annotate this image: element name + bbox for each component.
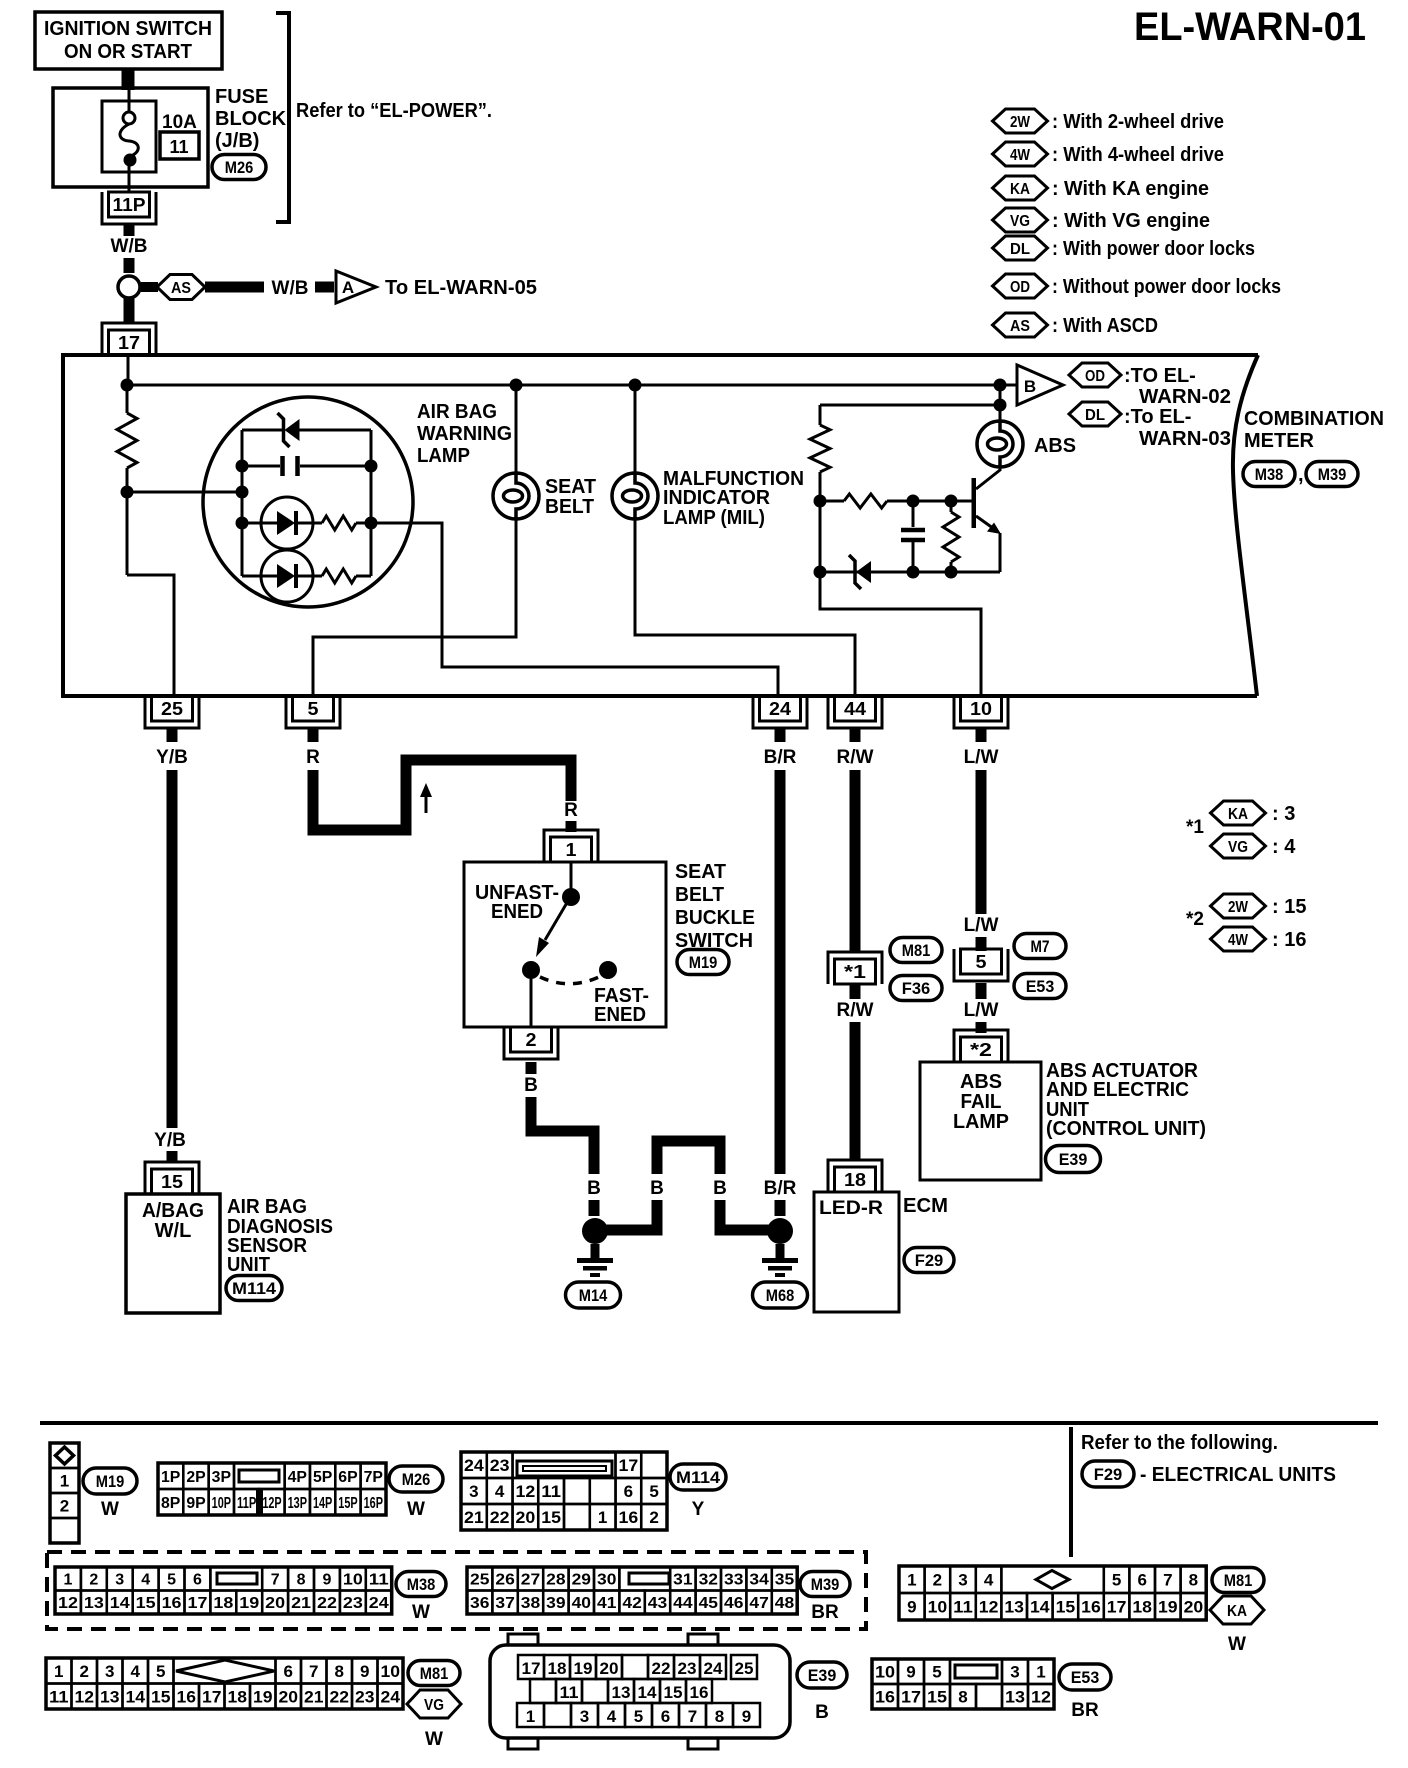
svg-text::TO EL-: :TO EL- (1124, 365, 1196, 387)
svg-text:2P: 2P (186, 1469, 206, 1486)
svg-text:21: 21 (291, 1595, 311, 1612)
svg-text:5: 5 (634, 1707, 643, 1726)
svg-text:LAMP: LAMP (953, 1111, 1009, 1133)
LED 1 with resistor (242, 522, 261, 525)
air bag warning lamp circle (203, 397, 413, 607)
svg-text:18: 18 (213, 1595, 233, 1612)
LED 2 with resistor (242, 575, 261, 578)
bridge wire between grounds (657, 1141, 720, 1174)
svg-text:9: 9 (322, 1572, 331, 1589)
wire node to connector 17 (124, 298, 135, 322)
svg-text:5: 5 (1112, 1571, 1121, 1590)
svg-text:(CONTROL UNIT): (CONTROL UNIT) (1046, 1118, 1206, 1140)
svg-text:17: 17 (522, 1659, 541, 1678)
svg-text:7: 7 (688, 1707, 697, 1726)
svg-text:5: 5 (649, 1482, 658, 1501)
svg-text:AIR BAG: AIR BAG (227, 1196, 307, 1218)
svg-text:M39: M39 (1318, 465, 1347, 484)
svg-text:ENED: ENED (594, 1004, 646, 1026)
svg-text:W/B: W/B (272, 278, 309, 299)
malfunction indicator lamp (612, 473, 658, 519)
connector *2 (954, 1030, 1008, 1062)
svg-text:12P: 12P (262, 1495, 282, 1512)
switch labels (475, 882, 559, 923)
connector M39 pin layout (467, 1567, 797, 1614)
svg-text:3P: 3P (212, 1469, 232, 1486)
svg-text:37: 37 (495, 1595, 515, 1612)
svg-text:SEAT: SEAT (675, 861, 726, 883)
svg-text:23: 23 (355, 1687, 375, 1706)
svg-text:7: 7 (271, 1572, 280, 1589)
ground junction dot M68 (767, 1218, 793, 1244)
wire R/W to ECM (850, 770, 861, 952)
zener diode top (278, 413, 300, 447)
svg-text:E39: E39 (808, 1666, 837, 1685)
svg-text:32: 32 (699, 1572, 719, 1589)
svg-text:ON OR START: ON OR START (64, 41, 192, 63)
svg-text:3: 3 (105, 1662, 114, 1681)
ABS lamp (977, 421, 1023, 467)
svg-text:3: 3 (958, 1571, 967, 1590)
wire stub to arrow (315, 282, 334, 293)
svg-text:13P: 13P (288, 1495, 308, 1512)
svg-text:M38: M38 (1255, 465, 1284, 484)
svg-text:46: 46 (724, 1595, 744, 1612)
svg-text:20: 20 (279, 1687, 299, 1706)
svg-text:5: 5 (156, 1662, 165, 1681)
ignition switch box (35, 12, 222, 69)
svg-text:3: 3 (469, 1482, 478, 1501)
svg-text:5: 5 (976, 952, 987, 972)
wire B buckle to ground M14 (531, 1097, 594, 1174)
svg-text:14: 14 (1030, 1598, 1050, 1617)
svg-text:11: 11 (953, 1598, 973, 1617)
svg-text:10P: 10P (212, 1495, 232, 1512)
svg-text::To EL-: :To EL- (1124, 406, 1191, 428)
svg-text:M114: M114 (676, 1468, 721, 1487)
svg-text:4: 4 (495, 1482, 505, 1501)
bottom rail of ABS circuit (820, 571, 1000, 574)
svg-text:31: 31 (673, 1572, 693, 1589)
svg-text:BUCKLE: BUCKLE (675, 907, 755, 929)
svg-text:,: , (1298, 464, 1304, 486)
svg-text:18: 18 (1132, 1598, 1152, 1617)
svg-text:1: 1 (63, 1572, 72, 1589)
svg-text:16: 16 (619, 1508, 639, 1527)
wire stub below 11P (124, 224, 135, 236)
svg-text:16P: 16P (364, 1495, 384, 1512)
svg-text:5: 5 (308, 699, 319, 719)
svg-text:13: 13 (84, 1595, 104, 1612)
svg-text:15: 15 (1056, 1598, 1076, 1617)
svg-text:: Without power door locks: : Without power door locks (1052, 276, 1281, 298)
svg-text:18: 18 (228, 1687, 248, 1706)
svg-text:1: 1 (526, 1707, 535, 1726)
switch contact from pin 1 (570, 862, 573, 893)
ground junction dot M14 (582, 1218, 608, 1244)
svg-text:21: 21 (304, 1687, 324, 1706)
ground symbol M68 (762, 1244, 798, 1277)
svg-text:*1: *1 (1186, 817, 1204, 838)
wire into air bag lamp assembly (127, 491, 242, 494)
svg-text:40: 40 (572, 1595, 592, 1612)
svg-text:17: 17 (118, 333, 140, 353)
svg-text:25: 25 (470, 1572, 490, 1589)
connector M38 oval (1243, 462, 1295, 487)
svg-text:15: 15 (151, 1687, 171, 1706)
connector F29 oval bottom (1082, 1461, 1134, 1487)
air bag warning lamp label (417, 401, 512, 467)
svg-text:FAIL: FAIL (961, 1091, 1002, 1113)
svg-text:6: 6 (624, 1482, 633, 1501)
svg-text:23: 23 (678, 1659, 697, 1678)
svg-text:L/W: L/W (964, 915, 999, 936)
svg-text:5: 5 (167, 1572, 176, 1589)
svg-text:13: 13 (612, 1683, 631, 1702)
connector 1 buckle switch (544, 830, 598, 862)
arrow A to EL-WARN-05 (336, 271, 376, 303)
svg-text:7: 7 (309, 1662, 318, 1681)
separator line (40, 1421, 1378, 1425)
svg-text:1: 1 (907, 1571, 916, 1590)
svg-text:27: 27 (521, 1572, 541, 1589)
svg-text:4: 4 (984, 1571, 994, 1590)
svg-text:19: 19 (253, 1687, 273, 1706)
svg-text:COMBINATION: COMBINATION (1244, 408, 1384, 430)
ABS fail lamp box (920, 1062, 1041, 1180)
svg-text:M81: M81 (902, 941, 931, 960)
svg-text:L/W: L/W (964, 747, 999, 768)
svg-text:17: 17 (1107, 1598, 1127, 1617)
svg-text:W: W (101, 1499, 119, 1520)
svg-text:47: 47 (749, 1595, 769, 1612)
svg-text:11: 11 (369, 1572, 389, 1589)
wire MIL to connector 44 (635, 519, 855, 696)
svg-text:W: W (425, 1729, 443, 1750)
wire from 17 into meter bus (127, 355, 130, 385)
ECM LED-R box (814, 1192, 899, 1312)
svg-text:33: 33 (724, 1572, 744, 1589)
legend tag VG (993, 208, 1048, 232)
svg-text:M68: M68 (766, 1286, 795, 1305)
svg-text:5: 5 (932, 1663, 941, 1682)
wire LED row to connector 24 (371, 523, 778, 696)
svg-text:VG: VG (424, 1697, 444, 1714)
svg-text:KA: KA (1228, 806, 1248, 823)
svg-text:SEAT: SEAT (545, 476, 596, 498)
resistor meter left (126, 385, 129, 413)
svg-text:25: 25 (161, 699, 183, 719)
svg-text:To EL-WARN-05: To EL-WARN-05 (385, 277, 537, 299)
svg-text:ENED: ENED (491, 901, 543, 923)
svg-text:WARN-02: WARN-02 (1139, 386, 1231, 408)
svg-text:Y: Y (692, 1499, 705, 1520)
arrow B (1017, 365, 1063, 405)
connector F29 oval (904, 1248, 954, 1273)
svg-text:B: B (713, 1178, 727, 1199)
svg-text:A: A (342, 278, 354, 297)
svg-text:12: 12 (75, 1687, 95, 1706)
svg-text:38: 38 (521, 1595, 541, 1612)
svg-text:M7: M7 (1031, 937, 1050, 956)
svg-text:F36: F36 (902, 979, 931, 998)
connector 25 meter bottom (145, 696, 199, 728)
svg-text:22: 22 (330, 1687, 350, 1706)
svg-text:21: 21 (464, 1508, 484, 1527)
svg-text:17: 17 (619, 1456, 639, 1475)
svg-text:B: B (524, 1075, 538, 1096)
svg-text:B: B (1024, 377, 1036, 396)
svg-text:LAMP: LAMP (417, 445, 470, 467)
svg-text:Refer to the following.: Refer to the following. (1081, 1432, 1278, 1454)
svg-text:VG: VG (1228, 839, 1248, 856)
seat belt label (545, 476, 596, 518)
air bag lamp inner rectangle (242, 430, 371, 576)
connector M38 pin layout (55, 1567, 392, 1614)
svg-text:LAMP (MIL): LAMP (MIL) (663, 507, 765, 529)
svg-text:6P: 6P (338, 1469, 358, 1486)
svg-text:ECM: ECM (903, 1195, 948, 1217)
svg-text:8: 8 (958, 1688, 967, 1707)
svg-text:R: R (564, 800, 578, 821)
svg-text:M81: M81 (420, 1664, 449, 1683)
svg-text:L/W: L/W (964, 1000, 999, 1021)
seat belt lamp (493, 473, 539, 519)
svg-text:48: 48 (775, 1595, 795, 1612)
svg-text:22: 22 (652, 1659, 671, 1678)
connector ovals M81 F36 (890, 938, 942, 963)
MIL label (663, 468, 804, 529)
svg-text:M81: M81 (1224, 1571, 1253, 1590)
svg-text:15: 15 (161, 1172, 183, 1192)
wire contact to pin 2 (530, 979, 533, 1027)
svg-text:W: W (412, 1602, 430, 1623)
svg-text:3: 3 (580, 1707, 589, 1726)
svg-text:16: 16 (1081, 1598, 1101, 1617)
svg-text:19: 19 (574, 1659, 593, 1678)
connector 10 meter bottom (954, 696, 1008, 728)
arrow up marker (420, 783, 432, 813)
svg-text:9: 9 (360, 1662, 369, 1681)
svg-text:15: 15 (664, 1683, 683, 1702)
svg-text:45: 45 (699, 1595, 719, 1612)
wire seat belt lamp to connector 5 (313, 519, 516, 696)
svg-text:29: 29 (572, 1572, 592, 1589)
svg-text:18: 18 (844, 1170, 866, 1190)
svg-text:10A: 10A (162, 112, 197, 133)
svg-text:23: 23 (490, 1456, 510, 1475)
svg-text:16: 16 (875, 1688, 895, 1707)
svg-text:ABS: ABS (960, 1071, 1002, 1093)
svg-text:20: 20 (265, 1595, 285, 1612)
connector 44 meter bottom (828, 696, 882, 728)
svg-text:17: 17 (901, 1688, 921, 1707)
svg-text:EL-WARN-01: EL-WARN-01 (1134, 5, 1366, 49)
wire W/B to arrow A (205, 282, 264, 293)
zener diode bottom rail (849, 555, 871, 589)
svg-text:E53: E53 (1071, 1668, 1100, 1687)
svg-text:METER: METER (1244, 430, 1315, 452)
svg-text:8: 8 (335, 1662, 344, 1681)
base resistor (820, 500, 844, 503)
svg-text:15: 15 (927, 1688, 947, 1707)
svg-text:ABS: ABS (1034, 435, 1076, 457)
dashed box M38 M39 (47, 1552, 866, 1629)
svg-text:24: 24 (464, 1456, 484, 1475)
svg-text:R: R (306, 747, 320, 768)
svg-text:14: 14 (126, 1687, 146, 1706)
svg-text:BELT: BELT (545, 496, 594, 518)
svg-text:10: 10 (381, 1662, 401, 1681)
svg-text:10: 10 (875, 1663, 895, 1682)
combination meter box (63, 355, 1258, 696)
svg-text:15: 15 (136, 1595, 156, 1612)
wire bus to seat belt lamp (515, 385, 518, 473)
svg-text:M39: M39 (811, 1575, 840, 1594)
fuse position mark (256, 1490, 263, 1514)
wire Y/B to air bag sensor (167, 770, 178, 1128)
svg-text:4: 4 (141, 1572, 150, 1589)
air bag diagnosis sensor unit label (227, 1196, 333, 1276)
svg-text:20: 20 (600, 1659, 619, 1678)
svg-text:B/R: B/R (764, 1178, 797, 1199)
svg-text:Y/B: Y/B (154, 1130, 186, 1151)
connector M19 pin layout (50, 1443, 79, 1543)
svg-text:*2: *2 (970, 1040, 992, 1060)
svg-text:INDICATOR: INDICATOR (663, 487, 771, 509)
svg-text:BR: BR (811, 1602, 839, 1623)
transistor Q ABS (972, 470, 1002, 534)
svg-text:1: 1 (598, 1508, 607, 1527)
connector 18 (828, 1160, 882, 1192)
wire bus to MIL lamp (634, 385, 637, 473)
svg-text:- ELECTRICAL UNITS: - ELECTRICAL UNITS (1140, 1464, 1336, 1486)
switch arm with arrow (536, 901, 568, 957)
svg-text:11P: 11P (237, 1495, 257, 1512)
svg-text:WARN-03: WARN-03 (1139, 428, 1231, 450)
svg-text:41: 41 (597, 1595, 617, 1612)
svg-text:24: 24 (381, 1687, 401, 1706)
svg-text:M19: M19 (96, 1472, 125, 1491)
combination meter label (1244, 408, 1384, 452)
svg-text:13: 13 (100, 1687, 120, 1706)
connector M26 pin layout (158, 1463, 386, 1515)
connector M19 oval (677, 950, 729, 975)
connector 2 buckle switch (504, 1027, 558, 1059)
wire L/W to ABS unit (976, 770, 987, 914)
svg-text:(J/B): (J/B) (215, 130, 259, 152)
svg-text:E39: E39 (1059, 1150, 1088, 1169)
svg-text:FUSE: FUSE (215, 86, 268, 108)
connector M39 oval (1306, 462, 1358, 487)
svg-text:M14: M14 (579, 1286, 608, 1305)
svg-text:UNIT: UNIT (227, 1254, 270, 1276)
svg-text:7: 7 (1163, 1571, 1172, 1590)
svg-text:17: 17 (188, 1595, 208, 1612)
wire emitter down (999, 533, 1002, 572)
svg-text:4W: 4W (1010, 147, 1031, 164)
legend tag 4W (993, 142, 1048, 166)
svg-text:*2: *2 (1186, 909, 1204, 930)
svg-text:6: 6 (284, 1662, 293, 1681)
svg-text:10: 10 (343, 1572, 363, 1589)
svg-text:7P: 7P (364, 1469, 384, 1486)
connector M81 KA pin layout (899, 1566, 1206, 1620)
svg-text:17: 17 (202, 1687, 222, 1706)
svg-text:1P: 1P (161, 1469, 181, 1486)
svg-text:16: 16 (162, 1595, 182, 1612)
svg-text:KA: KA (1227, 1603, 1247, 1620)
svg-text:2: 2 (60, 1497, 69, 1516)
connector *1 (828, 952, 882, 984)
svg-text:16: 16 (690, 1683, 709, 1702)
svg-text:W/L: W/L (155, 1220, 192, 1242)
svg-text:R/W: R/W (837, 1000, 874, 1021)
svg-text:13: 13 (1004, 1598, 1024, 1617)
connector 11P (102, 192, 156, 224)
connector 5 meter bottom (286, 696, 340, 728)
svg-text:18: 18 (548, 1659, 567, 1678)
node junction circle (118, 276, 140, 298)
svg-text:2W: 2W (1010, 114, 1031, 131)
svg-text:1: 1 (54, 1662, 63, 1681)
svg-text:8P: 8P (161, 1495, 181, 1512)
svg-text:F29: F29 (915, 1251, 944, 1270)
svg-text:14: 14 (110, 1595, 130, 1612)
resistor vertical ABS (950, 501, 953, 512)
svg-text:M38: M38 (407, 1575, 436, 1594)
wire R from connector 5 to buckle switch (313, 760, 571, 830)
legend tag AS (993, 313, 1048, 337)
dashed arc to fastened contact (540, 976, 601, 984)
svg-text:BELT: BELT (675, 884, 724, 906)
svg-text:: With power door locks: : With power door locks (1052, 238, 1255, 260)
svg-text:20: 20 (516, 1508, 536, 1527)
svg-text:M26: M26 (402, 1470, 431, 1489)
svg-text:43: 43 (648, 1595, 668, 1612)
svg-text:AS: AS (1010, 318, 1030, 335)
svg-text:Refer to “EL-POWER”.: Refer to “EL-POWER”. (296, 100, 492, 122)
svg-text:15P: 15P (338, 1495, 358, 1512)
svg-text:OD: OD (1085, 368, 1105, 385)
svg-text:KA: KA (1010, 181, 1030, 198)
wire ABS lamp to collector (999, 467, 1002, 471)
connector 24 meter bottom (753, 696, 807, 728)
svg-text:11: 11 (49, 1687, 69, 1706)
svg-text:9: 9 (907, 1598, 916, 1617)
svg-text:AS: AS (171, 280, 191, 297)
svg-text:B/R: B/R (764, 747, 797, 768)
svg-text:8: 8 (1189, 1571, 1198, 1590)
seat belt buckle switch box (464, 862, 666, 1027)
svg-text:1: 1 (60, 1472, 69, 1491)
wire ABS circuit to connector 10 (820, 572, 981, 696)
svg-text:9P: 9P (186, 1495, 206, 1512)
svg-text:5P: 5P (313, 1469, 333, 1486)
svg-text:DL: DL (1085, 407, 1105, 424)
air bag diagnosis sensor unit box (126, 1194, 220, 1313)
svg-text:W: W (1228, 1634, 1246, 1655)
svg-text:IGNITION SWITCH: IGNITION SWITCH (44, 18, 212, 40)
svg-text:E53: E53 (1026, 977, 1055, 996)
wire ignition to fuse block (122, 69, 135, 90)
svg-text:14P: 14P (313, 1495, 333, 1512)
svg-text:: 16: : 16 (1272, 929, 1306, 951)
svg-text:*1: *1 (844, 962, 866, 982)
svg-text:A/BAG: A/BAG (142, 1200, 204, 1222)
svg-text:2: 2 (80, 1662, 89, 1681)
svg-text:10: 10 (970, 699, 992, 719)
